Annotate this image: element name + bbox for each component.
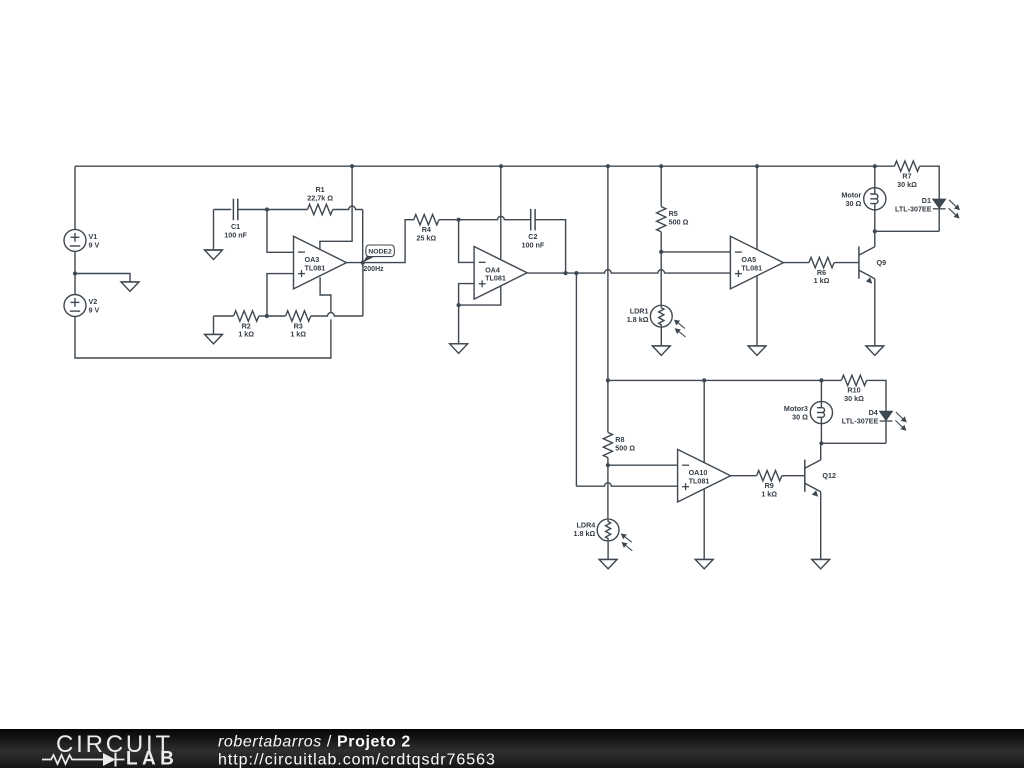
node OA5 V+ on top rail bbox=[755, 164, 759, 168]
wire long vertical top rail to R8 bbox=[607, 166, 609, 432]
svg-text:1 kΩ: 1 kΩ bbox=[761, 489, 777, 498]
photoresistor LDR1 bbox=[627, 305, 686, 337]
wire R1 feedback down to output bbox=[362, 210, 364, 263]
svg-text:1 kΩ: 1 kΩ bbox=[814, 276, 830, 285]
resistor R1 bbox=[307, 185, 333, 215]
wire Q12 collector up bbox=[820, 443, 822, 460]
ground below OA10 bbox=[695, 559, 713, 569]
wire V1 to V2 bbox=[74, 251, 76, 295]
resistor R6 bbox=[809, 257, 834, 285]
op-amp OA4 bbox=[474, 247, 527, 300]
ground below OA4 bbox=[450, 344, 468, 354]
ground near V1/V2 bbox=[121, 282, 139, 292]
svg-text:Q12: Q12 bbox=[822, 471, 836, 480]
svg-text:30 kΩ: 30 kΩ bbox=[844, 394, 864, 403]
wire mid supply to ground bbox=[75, 274, 130, 282]
wire R10 to D4 top bbox=[867, 380, 886, 411]
wire node to R1 bbox=[267, 209, 308, 211]
svg-text:100 nF: 100 nF bbox=[522, 241, 545, 250]
node between V1 and V2 bbox=[73, 271, 77, 275]
node NODE2 junction bbox=[361, 261, 365, 265]
node C1/R1/OA3- bbox=[265, 207, 269, 211]
svg-text:LTL-307EE: LTL-307EE bbox=[842, 417, 879, 426]
svg-text:NODE2: NODE2 bbox=[368, 249, 392, 256]
svg-text:TL081: TL081 bbox=[305, 263, 326, 272]
op-amp OA10 bbox=[678, 449, 731, 502]
transistor Q12 bbox=[805, 460, 836, 497]
node lower rail OA10 V+ bbox=[702, 378, 706, 382]
resistor R10 bbox=[841, 375, 866, 403]
wire OA3 V+ to top rail bbox=[320, 166, 352, 249]
resistor R9 bbox=[757, 471, 782, 499]
svg-text:1 kΩ: 1 kΩ bbox=[238, 330, 254, 339]
svg-text:1.8 kΩ: 1.8 kΩ bbox=[627, 315, 649, 324]
capacitor C2 bbox=[522, 209, 545, 250]
op-amp OA5 bbox=[730, 236, 783, 289]
node motor3/Q12 collector bbox=[819, 441, 823, 445]
resistor R7 bbox=[894, 161, 919, 189]
svg-text:1.8 kΩ: 1.8 kΩ bbox=[574, 529, 596, 538]
node flag NODE2 bbox=[363, 245, 395, 263]
svg-text:Q9: Q9 bbox=[877, 258, 887, 267]
svg-text:LAB: LAB bbox=[126, 749, 178, 769]
ground below C1 bbox=[205, 250, 223, 260]
node OA4 V+ on top rail bbox=[499, 164, 503, 168]
wire OA10 output to R9 bbox=[731, 475, 757, 477]
svg-text:30 kΩ: 30 kΩ bbox=[897, 180, 917, 189]
wire node to OA3 minus input bbox=[267, 210, 294, 253]
svg-text:100 nF: 100 nF bbox=[224, 230, 247, 239]
wire lower rail bbox=[608, 379, 842, 381]
wire lower rail to motor3 bbox=[820, 380, 822, 401]
resistor R5 bbox=[657, 207, 689, 232]
svg-text:robertabarros / Projeto 2: robertabarros / Projeto 2 bbox=[218, 734, 411, 751]
wire R3 right with hop bbox=[311, 313, 363, 316]
ground below LDR1 bbox=[652, 346, 670, 356]
wire C1 left bbox=[214, 209, 232, 211]
op-amp OA3 bbox=[294, 236, 347, 289]
wire node down to LDR4 bbox=[607, 465, 609, 519]
wire top rail to R5 bbox=[660, 166, 662, 206]
wire ground to R2 bbox=[214, 315, 234, 317]
node R5/LDR1/OA5- bbox=[659, 250, 663, 254]
wire R4 to node bbox=[439, 219, 459, 221]
ground below OA5 bbox=[748, 346, 766, 356]
svg-text:TL081: TL081 bbox=[689, 477, 710, 486]
motor Motor bbox=[841, 188, 886, 210]
wire V+ rail to V1 bbox=[74, 166, 76, 229]
wire OA5 V- to ground bbox=[756, 276, 758, 346]
wire R2 to node bbox=[259, 315, 267, 317]
wire R3 up to output node bbox=[362, 263, 364, 316]
wire node to OA5 minus input bbox=[661, 251, 730, 253]
footer bar bbox=[0, 729, 1024, 768]
wire node to OA10 minus input bbox=[608, 464, 678, 466]
wire node to R3 bbox=[267, 315, 286, 317]
wire OA4 output to OA5 plus input with hops bbox=[527, 270, 730, 273]
wire Q9 emitter to ground bbox=[874, 279, 876, 346]
ground below Q12 bbox=[812, 559, 830, 569]
svg-text:LTL-307EE: LTL-307EE bbox=[895, 204, 932, 213]
node top rail motor bbox=[873, 164, 877, 168]
wire OA3 output to R4 bbox=[347, 220, 415, 263]
wire OA4 V- step bbox=[459, 286, 501, 305]
node R2/R3/OA3+ bbox=[265, 314, 269, 318]
wire OA10 V- to ground bbox=[703, 489, 705, 560]
voltage source V2 bbox=[64, 295, 99, 317]
svg-text:9 V: 9 V bbox=[89, 240, 100, 249]
svg-text:22,7k Ω: 22,7k Ω bbox=[307, 194, 333, 203]
ground below LDR4 bbox=[599, 559, 617, 569]
svg-text:25 kΩ: 25 kΩ bbox=[416, 233, 436, 242]
wire OA10 V+ to lower rail bbox=[703, 380, 705, 462]
wire R9 to Q12 base bbox=[782, 475, 805, 477]
svg-text:500 Ω: 500 Ω bbox=[669, 218, 689, 227]
wire R5 to node bbox=[660, 232, 662, 252]
svg-text:TL081: TL081 bbox=[741, 263, 762, 272]
node OA4 plus/V-/ground bbox=[457, 303, 461, 307]
wire R6 to Q9 base bbox=[834, 262, 859, 264]
node lower rail motor3/R10 bbox=[819, 378, 823, 382]
wire OA4 plus input down bbox=[459, 284, 475, 306]
node C2 feedback on output bbox=[564, 271, 568, 275]
wire OA5 V+ to top rail bbox=[756, 166, 758, 249]
wire OA3 V- step bbox=[320, 277, 331, 312]
wire node to ground bbox=[458, 305, 460, 344]
capacitor C1 bbox=[224, 199, 247, 240]
wire top rail to motor bbox=[874, 166, 876, 188]
wire C2 right down to output bbox=[535, 220, 566, 273]
wire top rail left of R7 bbox=[75, 165, 895, 167]
resistor R8 bbox=[603, 432, 635, 457]
wire V2 to bottom rail up to OA3 V- (lower part) bbox=[75, 316, 331, 358]
svg-text:http://circuitlab.com/crdtqsdr: http://circuitlab.com/crdtqsdr76563 bbox=[218, 752, 496, 769]
wire Q12 emitter to ground bbox=[820, 492, 822, 560]
resistor R3 bbox=[286, 311, 311, 339]
svg-text:500 Ω: 500 Ω bbox=[615, 443, 635, 452]
resistor R2 bbox=[234, 311, 259, 339]
wire motor to collector node bbox=[874, 210, 876, 231]
svg-text:30 Ω: 30 Ω bbox=[846, 199, 862, 208]
transistor Q9 bbox=[859, 247, 886, 284]
node R4/C2/OA4- bbox=[457, 218, 461, 222]
node top rail long vertical bbox=[606, 164, 610, 168]
svg-text:TL081: TL081 bbox=[485, 274, 506, 283]
svg-text:1 kΩ: 1 kΩ bbox=[290, 330, 306, 339]
svg-text:9 V: 9 V bbox=[89, 306, 100, 315]
wire LDR4 to ground bbox=[607, 541, 609, 560]
voltage source V1 bbox=[64, 229, 99, 251]
wire R2 left to ground bbox=[213, 316, 215, 334]
wire top rail right / down to D1 bbox=[920, 166, 940, 199]
motor Motor3 bbox=[784, 401, 833, 423]
node output to lower stage bbox=[574, 271, 578, 275]
LED D1 bbox=[895, 196, 960, 219]
CircuitLab logo resistor-diode glyph bbox=[42, 755, 103, 764]
wire OA4 V+ to top rail bbox=[500, 166, 502, 260]
svg-text:30 Ω: 30 Ω bbox=[792, 413, 808, 422]
wire node to C2 with hop over OA4 V+ bbox=[459, 216, 531, 219]
wire OA3 plus input down to R2/R3 node bbox=[267, 274, 294, 316]
wire C1 right to node bbox=[238, 209, 267, 211]
ground below Q9 bbox=[866, 346, 884, 356]
wire D1 cathode down bbox=[938, 209, 940, 232]
wire collector node to D4 bottom bbox=[821, 442, 886, 444]
LED D4 bbox=[842, 408, 907, 431]
photoresistor LDR4 bbox=[574, 519, 633, 551]
wire motor3 to collector node bbox=[820, 424, 822, 444]
wire OA5 output to R6 bbox=[784, 262, 809, 264]
node long vertical / lower rail bbox=[606, 378, 610, 382]
ground below R2 bbox=[205, 334, 223, 344]
wire D4 cathode down bbox=[885, 421, 887, 443]
wire output down to OA10 plus row bbox=[575, 273, 577, 486]
wire lower plus row with hop bbox=[576, 483, 677, 486]
wire R1 right with hop bbox=[333, 206, 363, 209]
wire collector node to D1 bottom bbox=[875, 230, 939, 232]
node top rail R5 bbox=[659, 164, 663, 168]
wire C1 left to ground bbox=[213, 210, 215, 251]
svg-text:200Hz: 200Hz bbox=[363, 266, 384, 273]
node OA3 V+ on top rail bbox=[350, 164, 354, 168]
wire R8 to node bbox=[607, 458, 609, 466]
wire LDR1 to ground bbox=[660, 327, 662, 346]
wire Q9 collector up bbox=[874, 231, 876, 247]
wire node to OA4 minus input bbox=[459, 220, 475, 263]
node R8/LDR4/OA10- bbox=[606, 463, 610, 467]
wire node down to LDR1 bbox=[660, 252, 662, 305]
resistor R4 bbox=[414, 215, 439, 243]
node motor/Q9 collector bbox=[873, 229, 877, 233]
